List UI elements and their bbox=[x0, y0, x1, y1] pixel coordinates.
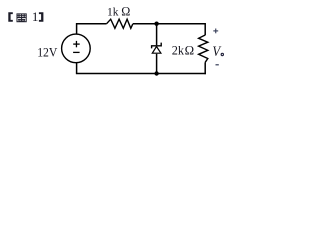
wire: node A to top-right corner bbox=[157, 23, 206, 25]
svg-text:V: V bbox=[212, 44, 222, 60]
wire: source top lead and top-left segment to R1 bbox=[77, 24, 107, 34]
svg-text:Ω: Ω bbox=[185, 43, 195, 57]
node B junction dot bbox=[154, 71, 158, 75]
output + label bbox=[213, 29, 218, 34]
svg-text:2k: 2k bbox=[172, 43, 185, 57]
wire: bottom rail bbox=[76, 73, 206, 75]
voltage source V1 12V (circle with +/-) bbox=[62, 34, 91, 63]
zener diode D1 bbox=[152, 43, 162, 54]
svg-text:Ω: Ω bbox=[121, 5, 130, 19]
resistor R1 1kΩ (horizontal zigzag) bbox=[107, 19, 133, 28]
svg-text:1: 1 bbox=[32, 9, 39, 24]
resistor R2 2kΩ (vertical zigzag) bbox=[199, 35, 208, 62]
output − label bbox=[216, 64, 219, 66]
wire: source bottom lead bbox=[76, 63, 78, 74]
wire: zener anode down to node B bbox=[156, 54, 158, 74]
wire: R2 bottom to bottom-right corner bbox=[204, 62, 206, 74]
svg-text:12V: 12V bbox=[37, 45, 57, 59]
svg-text:1k: 1k bbox=[107, 6, 119, 18]
wire: node A down to zener cathode bbox=[156, 24, 158, 46]
wire: R1 to node A bbox=[133, 23, 157, 25]
figure label 【圖 1】 bbox=[8, 9, 43, 24]
node A junction dot bbox=[154, 22, 158, 26]
wire: top-right corner down to R2 bbox=[204, 23, 206, 35]
